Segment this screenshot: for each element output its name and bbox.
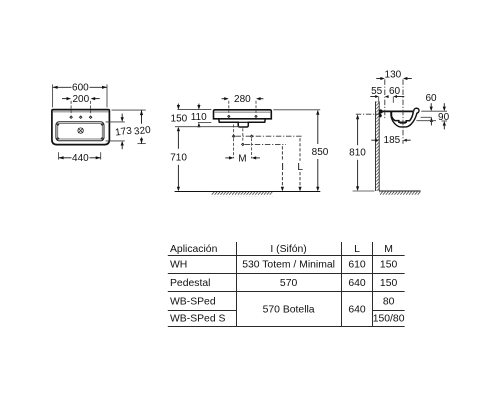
svg-text:Aplicación: Aplicación — [170, 244, 218, 255]
dashed drop line left fixing — [233, 125, 235, 159]
svg-text:570: 570 — [280, 278, 298, 289]
top extension line (left) — [177, 109, 211, 111]
svg-text:570 Botella: 570 Botella — [263, 304, 315, 315]
drain symbol — [78, 128, 83, 133]
basin side profile front lip — [414, 108, 419, 113]
dim 710 line — [177, 131, 179, 149]
basin inner bowl inner line — [58, 124, 103, 139]
svg-text:I (Sifón): I (Sifón) — [270, 244, 306, 255]
construction dash-dot line (drain level) — [245, 143, 286, 145]
dim 280 arrows — [222, 98, 225, 100]
svg-text:M: M — [238, 153, 246, 164]
svg-text:185: 185 — [384, 135, 401, 146]
extension line at 150 level — [175, 126, 242, 128]
floor line — [379, 190, 420, 192]
dim 130 arrows — [376, 78, 380, 80]
skirt bottom edge across trap cover — [238, 121, 248, 123]
dim 173 arrows — [121, 114, 123, 118]
svg-text:150: 150 — [380, 278, 398, 289]
tap hole centre — [80, 116, 82, 118]
dim 55 arrow and tick — [370, 96, 375, 98]
svg-text:I: I — [281, 162, 284, 173]
svg-text:Pedestal: Pedestal — [170, 278, 210, 289]
dim 60 top arrow — [430, 103, 432, 107]
rim top extension line — [421, 110, 447, 112]
svg-text:150/80: 150/80 — [373, 314, 405, 325]
dim 150 top arrow — [177, 104, 179, 106]
dim 173 extension lines — [106, 121, 125, 123]
dim 810 line — [356, 114, 359, 119]
dim 850 line — [316, 110, 319, 115]
dim 60 wall tick and arrow — [392, 97, 394, 103]
hanger centre dash-dot vertical — [384, 79, 386, 119]
svg-text:110: 110 — [191, 112, 207, 123]
svg-text:WH: WH — [170, 260, 187, 271]
table vertical rules — [236, 242, 238, 327]
dim 600 line and arrows — [53, 86, 72, 88]
dim 150 bottom arrow — [177, 127, 180, 132]
wall outline — [375, 101, 377, 191]
svg-text:530 Totem / Minimal: 530 Totem / Minimal — [242, 260, 335, 271]
dashed drop line drain — [242, 128, 244, 141]
overflow hole right — [255, 115, 257, 117]
basin front elevation skirt and trap cover — [219, 119, 266, 127]
basin inner bowl outer line — [56, 122, 104, 141]
node I dashed line — [281, 146, 283, 161]
dim 55 right arrow on hanger line — [385, 95, 389, 98]
drain point — [242, 143, 244, 145]
dim 200 dashed extensions — [70, 101, 72, 115]
dim 600 extension lines — [52, 84, 54, 107]
dim 60 bottom arrow — [430, 117, 433, 122]
dim 810 bottom extension — [353, 190, 375, 192]
basin rim inner edge — [53, 111, 109, 113]
floor hatching — [212, 192, 273, 196]
wall hatching — [376, 101, 379, 191]
svg-text:810: 810 — [349, 148, 366, 159]
svg-text:280: 280 — [234, 94, 251, 105]
dim 280 dashed extensions — [228, 101, 230, 114]
svg-text:WB-SPed: WB-SPed — [170, 296, 216, 307]
tap hole right — [89, 116, 91, 118]
svg-text:55: 55 — [371, 86, 383, 97]
lower level extension line — [416, 120, 436, 122]
svg-text:WB-SPed S: WB-SPed S — [170, 314, 226, 325]
drain recess lower edge — [400, 123, 406, 125]
svg-text:600: 600 — [72, 83, 89, 94]
dim 200 arrows — [62, 98, 67, 100]
svg-text:80: 80 — [383, 296, 395, 307]
svg-text:60: 60 — [425, 93, 437, 104]
table horizontal rules — [168, 255, 405, 257]
svg-text:M: M — [384, 244, 393, 255]
overflow hole left — [228, 115, 230, 117]
floor line — [175, 191, 321, 193]
basin side profile outer shell — [391, 112, 417, 127]
svg-text:850: 850 — [312, 147, 329, 158]
dim 110 bottom arrow — [197, 123, 200, 128]
svg-text:200: 200 — [72, 94, 89, 105]
svg-text:610: 610 — [348, 260, 366, 271]
svg-text:150: 150 — [380, 260, 398, 271]
dashed drop line right fixing — [251, 138, 253, 158]
dim 185 arrows — [371, 139, 375, 141]
basin side profile inner bowl with drain recess — [392, 111, 414, 122]
svg-text:L: L — [297, 162, 303, 173]
fixing level extension line — [421, 116, 432, 118]
svg-text:640: 640 — [348, 304, 366, 315]
dim 110 top arrow — [198, 104, 200, 106]
hanger height dash-dot — [356, 113, 380, 115]
basin front elevation rim band — [214, 110, 272, 119]
basin rim inner edge — [215, 111, 271, 113]
dim M arrows — [225, 157, 229, 159]
svg-text:150: 150 — [171, 113, 188, 124]
svg-text:320: 320 — [133, 125, 151, 138]
fixing point left — [232, 135, 234, 137]
svg-text:60: 60 — [389, 86, 401, 97]
tap hole left — [70, 116, 72, 118]
dim 440 extension lines — [58, 152, 60, 159]
svg-text:L: L — [354, 244, 360, 255]
svg-text:130: 130 — [385, 70, 402, 81]
svg-text:173: 173 — [115, 126, 133, 139]
mounting bracket — [379, 109, 383, 117]
fixing point right — [250, 135, 252, 137]
dim 90 down arrow — [443, 103, 445, 107]
dim 320 extension lines — [112, 109, 146, 111]
node L dashed line — [299, 138, 301, 161]
construction dash-dot line (fixing level) — [236, 135, 303, 137]
dim 90 up arrow — [443, 121, 446, 126]
basin side profile top rim line — [383, 110, 414, 112]
top extension line (right) — [273, 109, 320, 111]
extension line at 110 level — [198, 122, 211, 124]
tap centre dash-dot vertical — [402, 79, 404, 143]
floor hatching — [379, 191, 420, 195]
svg-text:640: 640 — [348, 278, 366, 289]
bowl corner hole marks — [57, 124, 59, 126]
basin outer outline — [52, 110, 110, 145]
dim 440 line and arrows — [59, 157, 72, 159]
dim 320 line and arrows — [141, 110, 143, 124]
svg-text:710: 710 — [170, 153, 187, 164]
svg-text:440: 440 — [72, 153, 89, 164]
